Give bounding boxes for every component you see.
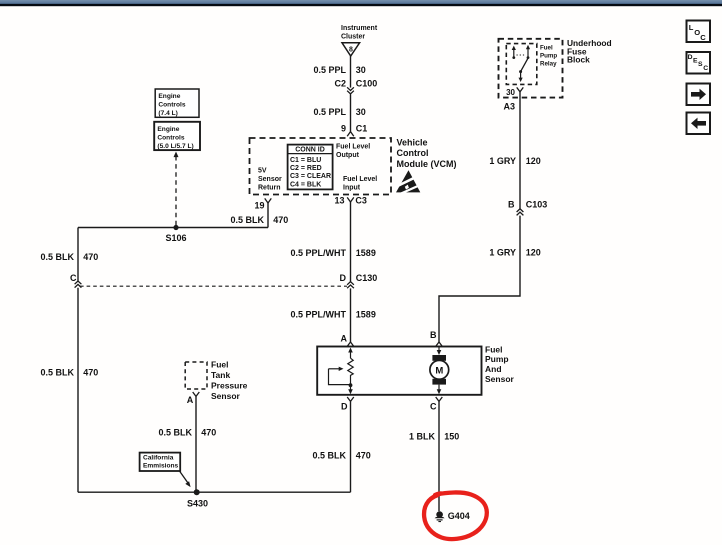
svg-text:Fuel: Fuel [540,45,553,52]
svg-text:Return: Return [258,184,281,191]
label 0.5 PPL 30 (lower) [313,107,365,117]
pin A fork [347,342,354,346]
svg-text:1 GRY: 1 GRY [489,248,516,258]
svg-text:C130: C130 [356,273,378,283]
svg-text:S430: S430 [187,498,208,508]
svg-text:0.5 BLK: 0.5 BLK [230,215,264,225]
pin 9 / C1 labels [341,123,367,133]
svg-text:(7.4 L): (7.4 L) [158,110,177,117]
label 0.5 BLK 470 (left wire upper) [40,252,98,262]
svg-text:1589: 1589 [356,310,376,320]
svg-text:C3 = CLEAR: C3 = CLEAR [290,173,331,180]
fuel tank pressure sensor label [211,360,248,401]
svg-text:Input: Input [343,184,361,191]
relay switch blade [519,58,529,82]
label 0.5 PPL/WHT 1589 (lower) [290,310,375,320]
pin D fork [347,397,354,401]
svg-text:Fuel: Fuel [485,344,502,354]
svg-text:0.5 PPL: 0.5 PPL [313,107,346,117]
svg-text:Block: Block [567,55,590,65]
svg-text:13: 13 [334,195,344,205]
wire: pump pin D down to bottom bus [350,401,352,492]
pin 9 fork at VCM top [347,132,354,137]
svg-text:C2: C2 [334,79,346,89]
svg-text:470: 470 [356,451,371,461]
svg-text:D: D [340,273,347,283]
svg-text:Sensor: Sensor [258,176,282,183]
sender wiper arrow [329,367,344,371]
svg-text:Engine: Engine [157,126,179,133]
svg-text:19: 19 [254,200,264,210]
svg-text:B: B [430,330,437,340]
sender junction dot [349,383,353,387]
fuel level input label [343,176,377,191]
svg-text:CONN ID: CONN ID [295,147,325,154]
label 1 GRY 120 (lower) [489,248,541,258]
svg-text:5V: 5V [258,168,267,175]
svg-text:0.5 BLK: 0.5 BLK [40,252,74,262]
svg-text:Module (VCM): Module (VCM) [397,159,457,169]
button LOC [687,21,711,43]
svg-text:Pump: Pump [540,53,557,60]
svg-text:Cluster: Cluster [341,34,365,41]
in-line connector C (double chevron) [75,281,82,288]
fuel level output label [336,144,370,159]
connector B / C103 labels [508,200,547,210]
svg-text:C100: C100 [356,79,378,89]
wire: fuse block to connector C103 [519,92,521,209]
motor M [430,360,449,379]
svg-text:Sensor: Sensor [211,391,241,401]
svg-text:L: L [689,23,694,32]
ESD sensitive device symbol [396,170,422,194]
in-line connector C130 (double chevron) [347,282,354,289]
svg-text:0.5 BLK: 0.5 BLK [312,451,346,461]
fuel pump and sensor box [317,347,481,395]
vehicle control module dashed box [250,138,392,195]
svg-text:M: M [435,365,443,376]
svg-text:C1 = BLU: C1 = BLU [290,157,321,164]
connector C2 / C100 labels [334,79,377,89]
svg-text:And: And [485,364,502,374]
svg-text:C: C [700,33,706,42]
svg-text:Pump: Pump [485,354,509,364]
ground G404 symbol [435,511,445,522]
splice S106 junction dot [173,225,178,230]
relay coil-side arrow (left) [512,46,516,59]
svg-text:Pressure: Pressure [211,380,248,390]
label 1 GRY 120 (upper) [489,156,541,166]
svg-text:Fuel Level: Fuel Level [336,144,370,151]
svg-text:470: 470 [273,215,288,225]
svg-text:C: C [70,273,77,283]
in-line connector C103 (double chevron) [517,209,524,216]
wire: VCM pin 13 down to connector C130 [350,202,352,282]
svg-text:470: 470 [83,252,98,262]
in-line connector C100 (double chevron) [347,87,354,94]
instrument cluster label [341,25,378,40]
label 1 BLK 150 [409,431,459,441]
fuel pump relay label [540,45,557,68]
dashed wire: C to C130 [80,285,347,287]
svg-text:120: 120 [526,248,541,258]
svg-text:A: A [187,395,194,405]
svg-text:Fuel Level: Fuel Level [343,176,377,183]
svg-text:Vehicle: Vehicle [397,137,428,147]
svg-text:Relay: Relay [540,61,557,68]
sensor pin A fork [193,392,200,396]
svg-text:1 GRY: 1 GRY [489,156,516,166]
motor brush (lower) [432,379,446,385]
label 0.5 BLK 470 (pin D wire) [312,451,370,461]
wire: S106 horizontal bus [78,227,268,229]
svg-text:9: 9 [341,123,346,133]
wire: VCM pin 19 down to S106 bus [267,203,269,228]
pin C fork [436,397,443,401]
sender to pin D arrow (bottom) [348,385,353,394]
svg-text:California: California [143,455,174,462]
svg-text:C: C [703,65,708,72]
label 0.5 BLK 470 (left wire lower) [40,368,98,378]
fuel pump and sensor label [485,344,515,383]
svg-text:Control: Control [397,148,429,158]
splice S430 junction dot [194,489,200,495]
wire: connector C down to bottom bus [77,288,79,492]
svg-text:A3: A3 [504,102,516,112]
motor brush (upper) [432,355,446,361]
svg-text:150: 150 [444,431,459,441]
underhood fuse block label [567,38,612,64]
engine controls (7.4 L) box [155,89,199,117]
red hand-drawn circle annotation [424,492,487,539]
california emmisions pointer arrow [180,471,191,487]
pin 13 / C3 labels [334,195,366,205]
svg-text:C1: C1 [356,123,368,133]
svg-text:1 BLK: 1 BLK [409,431,436,441]
connector D / C130 labels [340,273,378,283]
svg-text:1589: 1589 [356,248,376,258]
wire: bottom bus [78,491,351,493]
underhood fuse block outer dashed box [499,39,563,98]
svg-text:C2 = RED: C2 = RED [290,165,322,172]
svg-text:Controls: Controls [157,134,184,141]
fuel pump relay inner dashed box [506,44,537,85]
svg-text:470: 470 [201,427,216,437]
svg-text:D: D [688,54,693,61]
motor branch arrow (top) [437,347,442,356]
pin 19 fork [265,198,272,203]
relay arrow (right) [526,45,530,59]
svg-text:S106: S106 [165,233,186,243]
svg-text:30: 30 [356,107,366,117]
california emmisions callout box [140,453,181,471]
wire: pump pin C down to ground G404 [438,401,440,511]
svg-text:30: 30 [356,65,366,75]
svg-text:470: 470 [83,368,98,378]
pin 13 fork [347,197,354,202]
CONN ID table [288,145,333,190]
sender variable resistor R [348,358,353,385]
svg-text:G404: G404 [448,511,470,521]
svg-text:D: D [341,402,348,412]
svg-text:0.5 PPL/WHT: 0.5 PPL/WHT [290,310,346,320]
svg-text:Sensor: Sensor [485,374,515,384]
svg-text:B: B [508,200,515,210]
pin 30 fork [517,87,524,91]
label 0.5 BLK 470 (sensor wire) [158,427,216,437]
5V sensor return label [258,168,282,192]
label 0.5 PPL/WHT 1589 (upper) [290,248,375,258]
motor to pin C arrow (bottom) [437,385,442,395]
pin B fork [436,342,443,346]
svg-text:C3: C3 [355,195,367,205]
fuel tank pressure sensor dashed box [185,362,207,389]
svg-text:(5.0 L/5.7 L): (5.0 L/5.7 L) [157,143,193,150]
vehicle control module (VCM) label [397,137,457,169]
svg-text:A: A [341,333,348,343]
sender wiper return wire [329,369,351,385]
button next (right arrow) [687,84,711,106]
svg-text:C4 = BLK: C4 = BLK [290,181,321,188]
relay dotted link [517,54,526,56]
engine controls (5.0 L/5.7 L) box [154,122,200,150]
instrument cluster symbol (triangle, page 8) [342,43,360,56]
svg-text:Instrument: Instrument [341,25,378,32]
svg-text:C103: C103 [526,200,548,210]
label 0.5 BLK 470 (pin 19 wire) [230,215,288,225]
svg-text:0.5 PPL: 0.5 PPL [313,65,346,75]
wire: C103 down, jog left, to pump pin B [439,216,520,342]
dashed wire: S106 up to engine controls (arrow) [174,152,179,228]
sender resistor branch arrow (top) [348,348,353,359]
wire: C100 to VCM pin 9 [350,94,352,131]
svg-text:Tank: Tank [211,370,230,380]
svg-text:Engine: Engine [158,93,180,100]
svg-text:0.5 BLK: 0.5 BLK [158,427,192,437]
label 0.5 PPL 30 (upper) [313,65,365,75]
top toolbar strip [0,0,722,4]
svg-text:30: 30 [506,88,515,97]
wire: C130 down to pump pin A [350,288,352,342]
svg-text:0.5 PPL/WHT: 0.5 PPL/WHT [290,248,346,258]
wire: S106 bus down to connector C [77,228,79,281]
svg-text:8: 8 [349,46,353,53]
svg-text:Fuel: Fuel [211,360,228,370]
svg-text:120: 120 [526,156,541,166]
svg-text:Output: Output [336,152,360,159]
button DESC [687,52,711,74]
svg-text:0.5 BLK: 0.5 BLK [40,368,74,378]
button back (left arrow) [687,113,711,135]
wire: sensor pin A down to S430 [195,396,197,492]
svg-text:Controls: Controls [158,102,185,109]
svg-text:Emmisions: Emmisions [143,463,179,470]
wire: cluster to connector C100 [350,56,352,88]
svg-text:C: C [430,402,437,412]
